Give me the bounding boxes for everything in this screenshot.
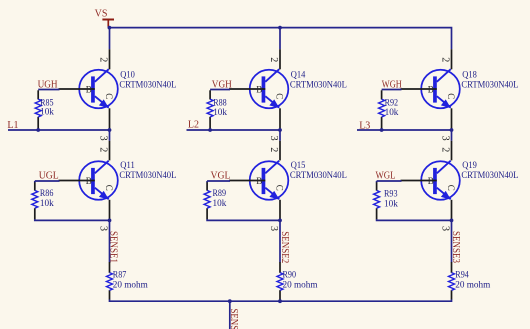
junction L1-R85: [36, 128, 40, 132]
resistor R85 pins: [37, 90, 39, 129]
svg-text:Q15: Q15: [291, 160, 306, 170]
junction emitter Q15: [278, 219, 282, 223]
svg-text:10k: 10k: [40, 107, 54, 117]
svg-text:SENSE: SENSE: [228, 309, 239, 329]
wire WGH gate: [382, 89, 402, 91]
svg-text:R94: R94: [455, 269, 469, 279]
svg-text:2: 2: [98, 147, 109, 152]
wire VGH gate: [210, 89, 230, 91]
svg-text:CRTM030N40L: CRTM030N40L: [461, 170, 518, 180]
svg-text:B: B: [256, 85, 262, 95]
transistor Q10 base pin: [59, 88, 95, 90]
wire UGL resistor corner: [34, 181, 36, 183]
resistor R90 body: [277, 273, 283, 291]
junction emitter Q19: [450, 219, 454, 223]
wire UGH gate: [38, 89, 59, 91]
wire R93 to emitter node: [377, 219, 452, 220]
svg-text:R90: R90: [283, 269, 297, 279]
svg-text:Q14: Q14: [291, 70, 306, 80]
resistor R87 pins: [109, 262, 111, 300]
wire VGL resistor corner: [206, 181, 208, 183]
svg-text:C: C: [275, 185, 285, 191]
resistor R92 body: [379, 99, 385, 117]
resistor R94 pins: [451, 262, 453, 300]
junction L3-Q18: [450, 128, 454, 132]
wire SENSE stub: [229, 301, 231, 329]
svg-text:CRTM030N40L: CRTM030N40L: [290, 79, 347, 89]
junction SENSE stub: [228, 299, 232, 303]
wire UGL gate: [35, 180, 60, 182]
svg-text:WGL: WGL: [376, 170, 396, 181]
junction L3-R92: [380, 128, 384, 132]
junction L2-R88: [208, 128, 212, 132]
svg-text:UGL: UGL: [39, 171, 59, 182]
wire L3 phase node: [357, 129, 452, 131]
svg-text:SENSE3: SENSE3: [450, 231, 461, 263]
junction rail-R90: [278, 299, 282, 303]
svg-text:R89: R89: [213, 188, 227, 198]
svg-text:Q19: Q19: [462, 160, 477, 170]
svg-text:VS: VS: [95, 9, 108, 20]
resistor R88 pins: [209, 90, 211, 129]
resistor R88 body: [207, 99, 213, 117]
transistor Q19 body: [421, 161, 460, 200]
svg-text:R93: R93: [384, 188, 398, 198]
junction emitter Q11: [108, 219, 112, 223]
svg-text:CRTM030N40L: CRTM030N40L: [119, 79, 176, 89]
svg-text:VGL: VGL: [211, 171, 231, 182]
transistor Q11 collector pin 2: [109, 141, 111, 161]
svg-text:10k: 10k: [213, 107, 227, 117]
svg-text:2: 2: [440, 147, 451, 152]
wire VGL gate: [207, 180, 230, 182]
resistor R85 body: [35, 99, 41, 117]
svg-text:3: 3: [440, 226, 451, 231]
transistor Q10 emitter pin 3: [109, 108, 111, 129]
junction VS-leg1: [108, 26, 112, 30]
wire VS stub leg1: [109, 28, 111, 50]
junction VS-leg2: [278, 26, 282, 30]
svg-text:10k: 10k: [40, 198, 54, 208]
wire Q19 collector stub: [451, 130, 453, 141]
transistor Q19 base pin: [401, 180, 437, 182]
transistor Q10 collector pin 2: [109, 49, 111, 69]
wire L2 phase node: [187, 129, 281, 131]
transistor Q11 base pin: [59, 180, 95, 182]
transistor Q15 emitter pin 3: [279, 200, 281, 221]
svg-text:20 mohm: 20 mohm: [283, 279, 318, 289]
transistor Q18 body: [421, 69, 460, 108]
svg-text:CRTM030N40L: CRTM030N40L: [461, 79, 518, 89]
transistor Q15 base pin: [229, 180, 265, 182]
resistor R89 pins: [206, 182, 208, 219]
svg-text:CRTM030N40L: CRTM030N40L: [119, 170, 176, 180]
resistor R90 pins: [279, 262, 281, 300]
svg-text:C: C: [446, 185, 456, 191]
svg-text:Q18: Q18: [462, 70, 477, 80]
svg-text:C: C: [275, 93, 285, 99]
svg-text:C: C: [104, 185, 114, 191]
svg-text:B: B: [86, 85, 92, 95]
transistor Q11 emitter pin 3: [109, 200, 111, 221]
svg-text:R86: R86: [40, 188, 54, 198]
svg-text:2: 2: [268, 57, 279, 62]
svg-text:3: 3: [98, 136, 109, 141]
transistor Q10 body: [79, 69, 118, 108]
svg-text:B: B: [428, 176, 434, 186]
transistor Q14 body: [250, 69, 289, 108]
svg-text:SENSE1: SENSE1: [107, 231, 118, 263]
wire SENSE3: [451, 220, 453, 262]
svg-text:20 mohm: 20 mohm: [455, 279, 490, 289]
junction L2-Q14: [278, 128, 282, 132]
wire SENSE1: [109, 220, 111, 262]
svg-text:C: C: [446, 93, 456, 99]
transistor Q14 emitter pin 3: [279, 108, 281, 129]
svg-text:B: B: [428, 85, 434, 95]
transistor Q19 emitter pin 3: [451, 200, 453, 221]
svg-text:2: 2: [98, 57, 109, 62]
wire Q11 collector stub: [109, 130, 111, 141]
resistor R92 pins: [381, 90, 383, 129]
svg-text:SENSE2: SENSE2: [279, 231, 290, 263]
transistor Q18 collector pin 2: [451, 49, 453, 69]
svg-text:C: C: [104, 93, 114, 99]
transistor Q15 collector pin 2: [279, 141, 281, 161]
svg-text:10k: 10k: [213, 198, 227, 208]
wire L1 phase node: [8, 129, 110, 131]
transistor Q19 collector pin 2: [451, 141, 453, 161]
transistor Q15 body: [250, 161, 289, 200]
svg-text:L2: L2: [188, 119, 199, 130]
transistor Q11 body: [79, 161, 118, 200]
transistor Q14 collector pin 2: [279, 49, 281, 69]
svg-text:CRTM030N40L: CRTM030N40L: [290, 170, 347, 180]
power symbol VS bar: [102, 19, 114, 27]
svg-text:R87: R87: [113, 269, 127, 279]
resistor R89 body: [204, 190, 210, 208]
svg-text:3: 3: [268, 136, 279, 141]
wire Q15 collector stub: [279, 130, 281, 141]
wire SENSE2: [279, 220, 281, 262]
svg-text:10k: 10k: [385, 107, 399, 117]
resistor R93 body: [374, 190, 380, 208]
svg-text:Q10: Q10: [120, 70, 135, 80]
wire WGL gate: [377, 180, 402, 182]
junction L1-Q10: [108, 128, 112, 132]
svg-text:10k: 10k: [384, 198, 398, 208]
resistor R87 body: [107, 273, 113, 291]
transistor Q18 base pin: [401, 88, 437, 90]
svg-text:20 mohm: 20 mohm: [113, 279, 148, 289]
svg-text:3: 3: [98, 226, 109, 231]
svg-text:3: 3: [268, 226, 279, 231]
wire VS stub leg2: [279, 28, 281, 50]
svg-text:3: 3: [440, 136, 451, 141]
wire bottom sense rail: [110, 299, 452, 301]
svg-text:B: B: [86, 176, 92, 186]
transistor Q14 base pin: [229, 88, 265, 90]
svg-text:2: 2: [268, 147, 279, 152]
wire R89 to emitter node: [207, 219, 280, 220]
resistor R86 pins: [34, 182, 36, 219]
wire R86 to emitter node: [35, 219, 110, 220]
svg-text:Q11: Q11: [120, 160, 135, 170]
transistor Q18 emitter pin 3: [451, 108, 453, 129]
svg-text:2: 2: [440, 57, 451, 62]
svg-text:B: B: [256, 176, 262, 186]
wire WGL resistor corner: [376, 181, 378, 183]
resistor R94 body: [449, 273, 455, 291]
resistor R86 body: [32, 190, 38, 208]
resistor R93 pins: [376, 182, 378, 219]
wire VS top rail: [110, 28, 452, 50]
